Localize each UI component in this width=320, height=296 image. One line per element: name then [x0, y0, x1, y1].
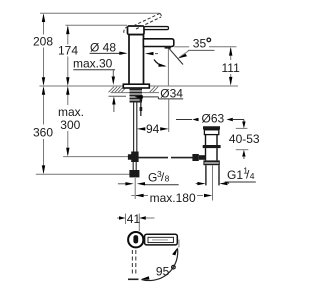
- svg-text:360: 360: [33, 126, 53, 140]
- escutcheon base: [123, 84, 149, 88]
- water stream 35deg line: [169, 48, 183, 64]
- water stream vertical: [167, 49, 169, 87]
- label diameter 34: [135, 87, 184, 101]
- svg-text:8: 8: [165, 174, 170, 184]
- dimension max.180: [131, 191, 212, 205]
- dimension max.300: [58, 86, 84, 157]
- dimension 111: [174, 47, 240, 86]
- drain knob: [192, 154, 198, 161]
- drain dark ring: [203, 145, 221, 148]
- counter hatch left: [109, 87, 127, 93]
- drain nut: [203, 160, 219, 165]
- drain centerline extension: [212, 165, 214, 200]
- svg-text:40-53: 40-53: [229, 132, 260, 146]
- drain body upper: [206, 135, 218, 145]
- top view lever: [145, 234, 178, 245]
- pop-up rod knob: [128, 152, 139, 163]
- lever bar: [144, 27, 169, 30]
- svg-text:94: 94: [146, 122, 160, 136]
- svg-text:max.: max.: [58, 105, 84, 119]
- top view lever root: [142, 237, 146, 243]
- dimension 208: [33, 13, 53, 86]
- label diameter 48: [90, 41, 128, 55]
- 95 deg arc: [141, 247, 178, 280]
- svg-text:G: G: [148, 171, 157, 185]
- faucet body: [129, 35, 144, 87]
- drain flange cap: [203, 126, 220, 129]
- dimension 40-53: [229, 121, 260, 159]
- dimension 174: [58, 25, 78, 86]
- curved turn arrow: [154, 60, 167, 67]
- svg-text:Ø63: Ø63: [202, 112, 225, 126]
- dashed lever rotated down: [132, 250, 135, 276]
- dimension 360: [33, 86, 53, 174]
- counter bottom line: [111, 92, 160, 94]
- svg-text:max.180: max.180: [150, 191, 196, 205]
- svg-text:G1: G1: [227, 168, 243, 182]
- dashed lever end tick: [128, 278, 139, 280]
- aerator: [165, 46, 171, 49]
- svg-text:Ø 48: Ø 48: [90, 41, 116, 55]
- extension line hose end level: [36, 173, 140, 175]
- drain tailpipe: [206, 165, 219, 185]
- top view: 41 dimension: [117, 212, 155, 231]
- svg-text:35: 35: [193, 36, 207, 50]
- svg-text:4: 4: [250, 171, 255, 181]
- deck line: [39, 85, 238, 87]
- dimension 94: [137, 100, 169, 136]
- extension line top (raised lever height): [40, 12, 160, 14]
- raised lever dashed: [124, 13, 161, 32]
- drain flange lower: [204, 130, 218, 135]
- top view slot: [133, 235, 138, 243]
- horizontal rod to drain: [139, 157, 169, 159]
- label 35 deg: [178, 36, 215, 58]
- label max.30: [73, 57, 126, 113]
- label diameter 63: [176, 112, 244, 126]
- svg-text:41: 41: [127, 212, 141, 226]
- threaded shank: [130, 88, 143, 103]
- svg-text:208: 208: [33, 35, 53, 49]
- top view body circle: [128, 232, 143, 247]
- spout: [143, 39, 173, 47]
- supply hoses: [134, 98, 143, 154]
- counter hatch right: [150, 87, 159, 93]
- svg-text:max.30: max.30: [73, 57, 113, 71]
- cartridge cap: [128, 26, 145, 35]
- extension line lever lowered height: [65, 24, 127, 26]
- extension line hose rod level: [63, 156, 131, 158]
- label G 3/8: [118, 169, 179, 186]
- drain body lower: [206, 148, 218, 160]
- hose below knob: [132, 162, 134, 170]
- extension line faucet centerline bottom: [134, 178, 136, 199]
- svg-text:95: 95: [156, 265, 170, 279]
- G 3/8 fitting: [129, 170, 139, 177]
- small arrow pointing at body: [145, 52, 159, 55]
- svg-text:111: 111: [222, 61, 241, 75]
- lever tip extension: [178, 240, 180, 248]
- label G 1 1/4: [196, 166, 256, 186]
- svg-text:300: 300: [60, 118, 80, 132]
